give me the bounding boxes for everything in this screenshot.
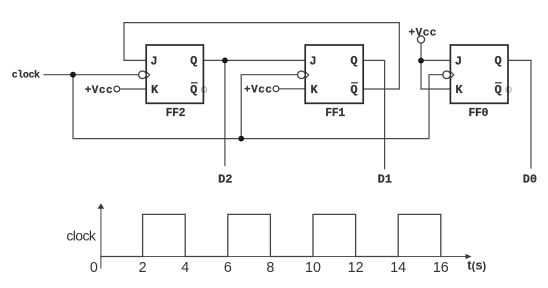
svg-text:14: 14 [390,260,406,276]
svg-text:4: 4 [181,260,189,276]
svg-text:clock: clock [66,227,96,243]
svg-text:Q: Q [190,83,197,97]
svg-text:FF2: FF2 [166,107,186,120]
svg-text:K: K [455,83,463,97]
svg-text:10: 10 [305,260,321,276]
svg-text:J: J [150,55,157,69]
svg-text:Q: Q [494,54,501,68]
svg-text:0: 0 [90,260,98,276]
svg-text:J: J [455,55,462,69]
svg-text:Q: Q [350,83,357,97]
svg-text:Q: Q [190,54,197,68]
svg-text:FF1: FF1 [325,107,345,120]
svg-text:Q: Q [350,54,357,68]
svg-text:K: K [151,83,159,97]
svg-text:+Vcc: +Vcc [85,85,113,97]
svg-text:J: J [309,55,316,69]
svg-text:16: 16 [433,260,449,276]
svg-text:t(s): t(s) [467,258,486,273]
svg-text:K: K [310,83,318,97]
svg-text:Q: Q [494,83,501,97]
svg-text:D1: D1 [378,172,392,186]
svg-text:clock: clock [12,70,40,82]
svg-text:FF0: FF0 [468,107,488,120]
svg-text:2: 2 [139,260,147,276]
svg-text:D2: D2 [218,172,232,186]
svg-text:+Vcc: +Vcc [409,28,437,40]
svg-text:D0: D0 [523,172,537,186]
svg-text:6: 6 [224,260,232,276]
svg-text:+Vcc: +Vcc [244,85,272,97]
svg-text:8: 8 [266,260,274,276]
svg-text:12: 12 [348,260,364,276]
